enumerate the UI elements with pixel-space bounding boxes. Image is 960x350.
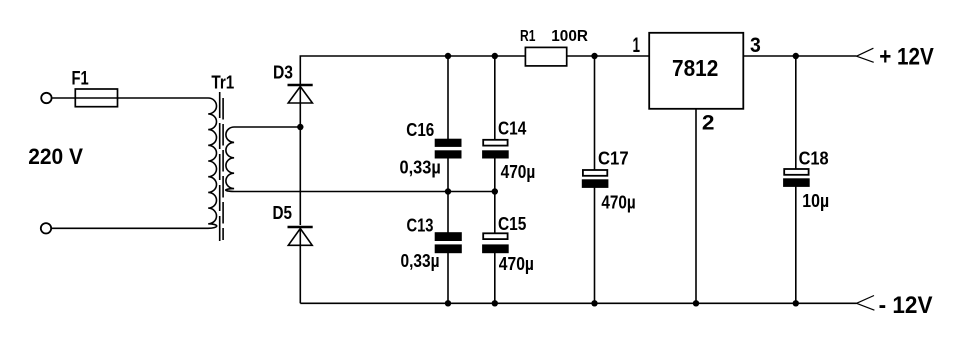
capacitor C15 column (483, 192, 508, 304)
node dots on top rail (445, 53, 451, 59)
svg-text:470µ: 470µ (601, 192, 635, 213)
node dot middle rail C16 (445, 188, 451, 194)
svg-text:C18: C18 (799, 147, 829, 168)
transformer Tr1 primary winding (206, 98, 217, 228)
wire node to D5 (299, 127, 301, 225)
svg-text:F1: F1 (72, 68, 89, 90)
transformer core (220, 92, 223, 241)
capacitor C13 column (436, 192, 462, 304)
capacitor C17 column (583, 56, 608, 303)
transformer Tr1 secondary winding (226, 127, 237, 192)
regulator U1 7812 box (649, 33, 743, 109)
top +rail wire to R1 (448, 55, 525, 57)
node: secondary top junction dot (297, 124, 303, 130)
svg-text:- 12V: - 12V (879, 292, 934, 319)
svg-text:R1: R1 (520, 28, 535, 45)
svg-text:2: 2 (702, 110, 715, 134)
svg-text:Tr1: Tr1 (211, 72, 234, 93)
svg-text:0,33µ: 0,33µ (400, 157, 441, 178)
node dot middle rail C15 (492, 188, 498, 194)
capacitor C18 column (784, 56, 809, 303)
resistor R1 (525, 47, 649, 66)
svg-text:470µ: 470µ (499, 253, 534, 274)
diode D3 (288, 85, 313, 127)
svg-text:+ 12V: + 12V (879, 44, 934, 71)
bottom -rail wire (300, 302, 856, 304)
svg-text:7812: 7812 (672, 55, 718, 81)
svg-text:C14: C14 (498, 117, 527, 138)
svg-text:D3: D3 (273, 62, 293, 83)
svg-text:1: 1 (633, 33, 641, 57)
diode D5 (288, 227, 313, 303)
terminal bottom-left input circle (41, 223, 51, 233)
svg-text:3: 3 (750, 33, 761, 57)
svg-text:220 V: 220 V (28, 144, 83, 169)
wire from bottom terminal to transformer primary (52, 227, 206, 229)
wire D3 top to +rail corner (300, 56, 448, 84)
arrow -12V (857, 296, 875, 311)
node dot output (793, 53, 799, 59)
svg-text:0,33µ: 0,33µ (401, 250, 440, 271)
fuse F1 (75, 89, 117, 107)
wire secondary bottom (common middle rail) (237, 191, 495, 193)
wire pin3 output (743, 55, 856, 57)
svg-text:10µ: 10µ (802, 190, 829, 211)
wire from top terminal to fuse (52, 97, 75, 99)
svg-text:C16: C16 (406, 119, 434, 140)
terminal top-left input circle (41, 93, 51, 103)
svg-text:470µ: 470µ (501, 161, 536, 182)
svg-text:C13: C13 (407, 215, 434, 236)
node dots on bottom rail (445, 300, 451, 306)
svg-text:C15: C15 (498, 213, 526, 234)
capacitor C16 column (436, 56, 461, 192)
wire pin2 to bottom rail (695, 109, 697, 303)
svg-text:C17: C17 (598, 147, 629, 168)
wire secondary top to node (237, 126, 301, 128)
svg-text:100R: 100R (551, 28, 588, 45)
svg-text:D5: D5 (273, 202, 293, 223)
wire fuse to transformer primary (118, 97, 206, 99)
capacitor C14 column (483, 56, 508, 192)
arrow +12V (857, 48, 874, 62)
